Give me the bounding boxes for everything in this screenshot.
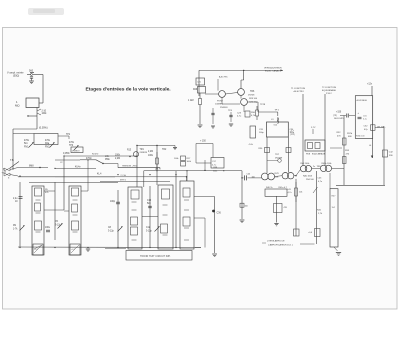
svg-text:P.16.2: P.16.2: [326, 93, 333, 95]
svg-text:L'AMPLIFICATEUR 16.1 ): L'AMPLIFICATEUR 16.1 ): [268, 244, 293, 247]
svg-text:100: 100: [252, 177, 255, 179]
svg-text:1 GM: 1 GM: [188, 100, 194, 102]
svg-text:R43 100k: R43 100k: [301, 163, 311, 165]
svg-text:EQUILIBRAGE: EQUILIBRAGE: [322, 89, 337, 92]
svg-text:2N3819: 2N3819: [140, 152, 148, 154]
svg-text:EQUILIBRAGE: EQUILIBRAGE: [312, 153, 326, 156]
svg-text:AJU 78%: AJU 78%: [219, 76, 228, 79]
svg-text:T1 JONCTION: T1 JONCTION: [291, 88, 305, 90]
svg-text:2 C.A: 2 C.A: [121, 174, 127, 177]
svg-text:LIG.: LIG.: [105, 156, 110, 158]
svg-text:DECOUPL: DECOUPL: [334, 118, 345, 120]
svg-text:4,7u: 4,7u: [318, 181, 322, 183]
svg-text:100k: 100k: [213, 170, 217, 172]
svg-text:TENSION +HT/2: TENSION +HT/2: [122, 166, 138, 168]
svg-text:2N3819: 2N3819: [72, 151, 80, 153]
svg-text:470Ω: 470Ω: [86, 158, 92, 160]
svg-text:PRE: PRE: [105, 159, 110, 161]
svg-text:R42b 100k: R42b 100k: [322, 163, 333, 165]
svg-text:VERS AJUSTEUR: VERS AJUSTEUR: [264, 67, 282, 70]
svg-text:AJUSTAGE: AJUSTAGE: [357, 99, 368, 102]
svg-text:2x: 2x: [313, 166, 315, 168]
svg-text:2N2369: 2N2369: [275, 158, 283, 160]
svg-text:( VERS AMPLI DE: ( VERS AMPLI DE: [267, 240, 285, 243]
svg-text:C36: C36: [217, 213, 222, 215]
svg-text:TIROIR HUIT CIRCUIT IMP.: TIROIR HUIT CIRCUIT IMP.: [140, 255, 171, 258]
svg-text:6M8: 6M8: [29, 166, 34, 168]
svg-text:DR.H: DR.H: [155, 169, 161, 171]
svg-text:RV2: RV2: [45, 147, 50, 149]
svg-text:Etages d'entrées de la voie ve: Etages d'entrées de la voie verticale.: [86, 87, 172, 93]
svg-text:R4 470: R4 470: [92, 154, 98, 156]
svg-text:R35b 100: R35b 100: [356, 136, 364, 138]
svg-text:41,4: 41,4: [97, 174, 102, 176]
svg-text:TR2: TR2: [162, 149, 167, 151]
svg-text:+150: +150: [336, 112, 342, 114]
svg-text:T.B.: T.B.: [10, 159, 15, 162]
svg-text:R37b: R37b: [347, 133, 353, 135]
svg-text:DR. BAL.: DR. BAL.: [377, 125, 386, 128]
svg-text:5,7V: 5,7V: [311, 127, 316, 129]
svg-text:PONT: PONT: [217, 101, 224, 103]
svg-text:C2: C2: [60, 162, 62, 164]
svg-text:3-12p: 3-12p: [146, 231, 153, 233]
svg-text:T2 JONCTION: T2 JONCTION: [322, 87, 336, 89]
svg-text:C31: C31: [363, 116, 367, 118]
svg-text:+5,7: +5,7: [290, 131, 294, 133]
svg-text:EQUIL. CANAL 2: EQUIL. CANAL 2: [265, 70, 282, 73]
svg-text:2,2M: 2,2M: [148, 151, 153, 153]
svg-text:100: 100: [245, 206, 248, 208]
svg-text:RV1: RV1: [24, 147, 29, 149]
svg-text:0,1u: 0,1u: [363, 119, 367, 121]
svg-text:RAL 1003: RAL 1003: [303, 175, 313, 178]
svg-text:560: 560: [29, 70, 34, 73]
svg-text:3-12p: 3-12p: [108, 231, 115, 233]
svg-text:(50Ω): (50Ω): [13, 75, 19, 78]
svg-text:2N3563: 2N3563: [220, 107, 228, 109]
svg-text:+ 150: + 150: [200, 141, 206, 143]
svg-text:2N4 100: 2N4 100: [306, 179, 315, 181]
svg-text:(TP): (TP): [333, 115, 337, 117]
svg-text:(0,05%): (0,05%): [39, 127, 48, 130]
svg-text:0,05%: 0,05%: [63, 153, 70, 155]
svg-text:2,2u: 2,2u: [13, 198, 18, 200]
svg-text:TR1: TR1: [140, 149, 145, 151]
svg-text:+12v: +12v: [367, 84, 373, 86]
svg-text:3HT 6: 3HT 6: [120, 180, 127, 182]
svg-text:4,7u: 4,7u: [288, 192, 292, 194]
svg-text:+ELECTRO: +ELECTRO: [293, 91, 304, 93]
svg-text:100p: 100p: [110, 201, 116, 203]
svg-text:2,2M: 2,2M: [115, 158, 120, 160]
svg-text:R28 100: R28 100: [249, 98, 258, 100]
svg-text:C40: C40: [247, 173, 251, 175]
svg-text:2N708: 2N708: [248, 95, 255, 97]
svg-text:MΩ: MΩ: [15, 104, 20, 108]
svg-text:100u: 100u: [45, 227, 51, 229]
svg-text:(TP2): (TP2): [290, 134, 295, 136]
svg-text:TP28: TP28: [260, 104, 266, 106]
svg-text:R39: R39: [214, 167, 218, 169]
svg-text:TR6: TR6: [250, 91, 255, 93]
